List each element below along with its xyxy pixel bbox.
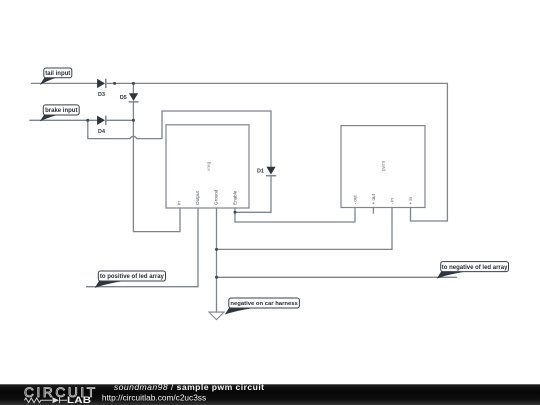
flag to positive of led array: [95, 271, 166, 288]
svg-text:vreg: vreg: [206, 161, 212, 171]
svg-text:LAB: LAB: [67, 396, 91, 405]
diode D4: [97, 116, 106, 135]
wire tail input run to +in of pwm: [32, 83, 448, 221]
svg-text:to positive of led array: to positive of led array: [100, 274, 165, 280]
flag to negative of led array: [437, 262, 509, 279]
flag negative on car harness: [225, 298, 300, 315]
node dot ground/-in: [215, 248, 218, 251]
svg-text:pwm: pwm: [381, 161, 387, 172]
svg-text:D3: D3: [98, 92, 105, 98]
wire D1 cathode to Enable node: [235, 176, 271, 213]
svg-text:soundman98 / sample pwm circui: soundman98 / sample pwm circuit: [114, 382, 265, 392]
diode D1: [257, 167, 276, 176]
svg-text:brake input: brake input: [45, 108, 77, 114]
IC box U2 pwm: [341, 126, 425, 208]
ground: [209, 312, 224, 320]
svg-text:D1: D1: [257, 169, 264, 175]
svg-text:Output: Output: [195, 190, 200, 205]
svg-text:D5: D5: [120, 95, 127, 101]
svg-text:D4: D4: [98, 129, 105, 135]
wire -in pin to ground node: [217, 208, 393, 250]
node dot ground/negative: [215, 276, 218, 279]
diode D3: [97, 79, 106, 98]
node dot D5/D4: [132, 119, 135, 122]
wire Enable pin to -out pin: [235, 208, 355, 223]
pin stub +out: [372, 208, 374, 214]
node dot brake branch: [86, 119, 89, 122]
wire Ground pin down to ground symbol: [216, 208, 218, 312]
node dot tail/D5: [132, 82, 135, 85]
node dot Enable/D1: [234, 211, 237, 214]
footer bar: [0, 384, 540, 405]
wire to negative of led array: [217, 276, 457, 278]
diode D5: [120, 93, 139, 102]
flag tail input: [40, 68, 72, 85]
svg-text:http://circuitlab.com/c2uc3ss: http://circuitlab.com/c2uc3ss: [102, 392, 206, 402]
flag brake input: [40, 105, 79, 122]
footer logo resistor-diode squiggle: [24, 397, 67, 403]
wire brake input run: [30, 119, 133, 121]
svg-text:tail input: tail input: [45, 71, 70, 77]
svg-text:- in: - in: [389, 198, 394, 205]
wire Output pin to positive of led array: [87, 208, 198, 287]
svg-text:+ in: + in: [408, 197, 413, 205]
svg-text:negative on car harness: negative on car harness: [230, 301, 298, 307]
svg-text:- out: - out: [352, 195, 357, 205]
svg-text:to negative of led array: to negative of led array: [442, 265, 508, 271]
IC box U1 vreg: [166, 125, 249, 208]
footer logo diode triangle: [53, 397, 60, 403]
svg-text:Enable: Enable: [232, 190, 237, 205]
svg-text:Ground: Ground: [214, 189, 219, 205]
svg-text:In: In: [177, 201, 182, 205]
svg-text:+ out: + out: [371, 193, 376, 204]
wire D5 branch down to In pin of vreg: [133, 83, 180, 231]
node dot tail/D3: [113, 82, 116, 85]
wire brake branch with hop to D1 anode: [88, 111, 271, 167]
